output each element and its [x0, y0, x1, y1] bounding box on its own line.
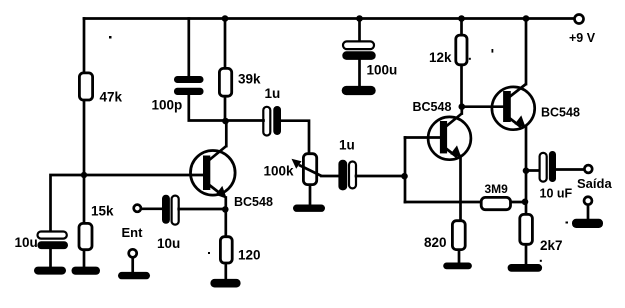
terminal Saida [584, 165, 592, 173]
svg-text:10 uF: 10 uF [540, 187, 573, 201]
wire: bias vertical [404, 138, 407, 203]
wire: Q2 base wire [405, 136, 440, 139]
svg-text:1u: 1u [339, 138, 355, 153]
ground below Ent [118, 272, 150, 279]
svg-text:10u: 10u [157, 236, 180, 251]
ground below output terminal [572, 219, 603, 228]
wire: Q1 base wire [51, 175, 204, 231]
svg-text:100u: 100u [367, 63, 398, 78]
wire: cap2 to bias node [356, 175, 405, 178]
ground below 15k [72, 267, 101, 275]
svg-text:100p: 100p [152, 98, 183, 113]
wire: Q2 collector short [460, 107, 463, 114]
ground below 820 [443, 263, 472, 270]
wire: Q1 collector to node [225, 121, 228, 146]
capacitor 10u base bypass [38, 232, 67, 239]
svg-text:3M9: 3M9 [485, 182, 509, 196]
capacitor 1u (first coupling) [263, 107, 270, 136]
svg-text:100k: 100k [264, 164, 295, 179]
svg-text:1u: 1u [265, 86, 281, 101]
wire: 2k7 to ground [525, 246, 528, 265]
terminal input coupling [134, 205, 141, 212]
node: Q1 collector node [222, 118, 229, 125]
svg-text:2k7: 2k7 [540, 238, 563, 253]
wire: bias to 3M9 [405, 201, 480, 204]
wire: output node to 10uF [526, 169, 540, 172]
svg-text:10u: 10u [15, 235, 38, 250]
potentiometer 100k [292, 154, 322, 185]
wire: pot bottom to ground [309, 186, 312, 206]
resistor 3M9 [481, 197, 510, 209]
node: divider/base junction [81, 172, 87, 178]
wire: cap1 to pot top [281, 121, 309, 153]
wire: 100p branch from rail [187, 19, 190, 78]
wire: output ground stem [587, 206, 590, 221]
wire: Ent stem [131, 258, 134, 273]
svg-text:12k: 12k [429, 50, 452, 65]
capacitor 100u [358, 19, 361, 43]
node: 3M9/2k7 junction [522, 199, 529, 206]
svg-text:BC548: BC548 [413, 100, 452, 114]
ground below 100u [342, 86, 376, 95]
wire: 39k branch [224, 19, 227, 122]
ground below 10u [34, 267, 66, 275]
svg-text:39k: 39k [238, 72, 261, 87]
wire: Q2 collector to Q3 base [462, 105, 503, 108]
capacitor 10uF output [540, 153, 547, 182]
resistor 39k [219, 68, 231, 96]
resistor 120 [220, 237, 232, 263]
node: bias node [401, 173, 408, 180]
ground below pot [293, 205, 325, 212]
wire: 820 to ground [458, 251, 461, 264]
wire: collector node to cap1 [226, 119, 264, 122]
node: output node [523, 167, 530, 174]
svg-text:15k: 15k [91, 204, 114, 219]
wire: pot wiper to cap2 [322, 175, 339, 178]
svg-text:Saída: Saída [577, 176, 612, 191]
wire: 10u stem to ground [49, 249, 52, 267]
capacitor 100p [174, 76, 204, 83]
wire: 10u to emitter junction [179, 208, 225, 211]
terminal +9V [575, 15, 584, 24]
capacitor 10u input [162, 195, 170, 224]
terminal Ent [129, 249, 137, 257]
wire: Q3 emitter down through output node to 2k7 [525, 126, 528, 214]
svg-text:47k: 47k [100, 90, 123, 105]
wire: 12k branch / Q2 collector [460, 19, 463, 107]
node: Q2 collector / Q3 base [459, 103, 466, 110]
terminal output ground reference [584, 197, 592, 205]
svg-text:BC548: BC548 [234, 195, 273, 209]
resistor 15k [79, 223, 92, 249]
svg-text:120: 120 [238, 248, 261, 263]
transistor Q3 BC548 [492, 84, 535, 130]
resistor 2k7 [520, 214, 533, 244]
wire: left vertical 47k/15k divider [83, 19, 86, 267]
resistor 47k [79, 73, 92, 100]
wire: +9V top rail [84, 17, 573, 20]
node: rail/12k [458, 15, 465, 22]
transistor Q1 BC548 [191, 146, 236, 199]
svg-text:BC548: BC548 [541, 106, 580, 120]
wire: input terminal to 10u [142, 207, 162, 210]
wire: Q2 emitter down to 820 [459, 156, 462, 220]
wire: Q1 emitter down through 120 [224, 198, 227, 282]
transistor Q2 BC548 [428, 114, 471, 160]
svg-text:+9 V: +9 V [569, 31, 596, 45]
resistor 12k [456, 35, 467, 65]
wire: 100p to collector node [189, 94, 226, 121]
svg-text:Ent: Ent [122, 225, 144, 240]
node: rail/Q3 collector [523, 15, 530, 22]
node: emitter/input junction [222, 206, 229, 213]
capacitor 1u (second coupling) [338, 160, 347, 191]
wire: 10uF to output terminal [556, 168, 583, 171]
wire: 3M9 to 2k7 node [511, 201, 526, 204]
svg-text:820: 820 [424, 235, 447, 250]
ground below 2k7 [508, 264, 542, 272]
resistor 820 [452, 221, 465, 250]
wire: Q3 collector to rail [525, 19, 528, 85]
speck artifacts [109, 36, 112, 39]
node: rail/39k [222, 15, 229, 22]
ground below 120 [210, 279, 240, 288]
